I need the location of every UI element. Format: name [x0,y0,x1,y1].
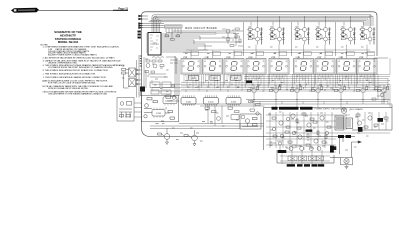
svg-text:V101: V101 [183,57,187,59]
IC IC203 [226,95,241,106]
svg-text:IC203: IC203 [231,101,237,103]
resistors R220-R226 and capacitors C211 C212 [205,101,260,121]
power transformer T1 assembly [117,98,134,122]
resistor R219 and capacitor C210 [165,95,179,101]
transistor Q205 [334,85,346,99]
transformers T901 T902 [335,116,353,130]
output transistors Q911-Q914 with emitter resistors [288,147,324,161]
svg-text:U201: U201 [152,44,158,46]
svg-text:Q901 X29A829: Q901 X29A829 [349,108,364,111]
transistor Q203 [290,85,302,99]
slide switches SW1 SW2 [122,68,142,88]
display tube V108 [337,59,357,92]
svg-text:4511: 4511 [213,78,217,80]
transistors Q206 Q207 with connectors [158,128,203,146]
connector plug P101 [165,25,183,35]
svg-text:MAIN CIRCUIT BOARD: MAIN CIRCUIT BOARD [185,27,217,30]
ground [345,165,349,169]
svg-text:MODEL SB-634: MODEL SB-634 [58,40,79,44]
svg-text:V103: V103 [226,57,230,59]
switch S901 components [372,58,388,100]
svg-text:V105: V105 [271,57,275,59]
wire junctions [186,76,375,92]
decoder ICs IC104 IC105 IC106 [188,76,241,81]
driver stage transistors Q113 Q114 [216,28,239,44]
anode resistor packs R101-R109 [185,52,375,56]
driver stage transistors Q101 Q102 [247,26,263,45]
terminal labels row [287,164,295,166]
time-set switch assembly S201 [142,95,179,122]
connector blocks CB1 CB2 [246,81,252,84]
display tube V106 [294,59,314,92]
driver stage transistors Q103 Q104 [269,26,285,45]
display tube V102 [203,59,223,92]
transistor Q915 [277,141,283,150]
transistor Q202 [269,85,281,99]
svg-text:FOR THE COLOR CODE OF EACH WIR: FOR THE COLOR CODE OF EACH WIRE SHOWN. [48,81,96,84]
svg-text:IC208: IC208 [167,101,172,103]
svg-text:V104: V104 [248,57,252,59]
display tube V109 [357,59,377,92]
wire runs from drivers to tube anodes [183,45,374,59]
connectors J101 J102 J103 [139,15,165,29]
wire grid (power supply) [266,112,390,164]
driver stage transistors Q107 Q108 [315,26,331,45]
transistors Q903-Q910 with resistors R901-R918 [270,113,388,147]
header rule line [37,9,128,11]
IC IC202 [203,95,218,106]
tube reference labels [183,57,363,59]
wire bus (top) [149,15,374,33]
svg-text:4511: 4511 [234,78,238,80]
wire pairs from tube cathodes to bus [202,74,358,88]
wire drops from transistor row [254,98,384,108]
terminal strip TS1 [138,31,141,39]
svg-text:V108: V108 [339,57,343,59]
wire runs from U201 with resistors R210 R211 R212 [163,31,243,52]
oscillator Y201 with resistors R213-R218 and transistors Q210 Q211 [144,56,179,96]
display tube V104 [246,59,266,92]
svg-text:POWER SUPPLY CIRCUIT BOARD: POWER SUPPLY CIRCUIT BOARD [315,107,348,110]
board name label bars [272,107,278,110]
transistor Q901 [341,108,347,114]
svg-text:∅ THIS SYMBOL INDICATES A CIR: ∅ THIS SYMBOL INDICATES A CIRCUIT BOARD … [43,69,109,72]
driver stage transistors Q109 Q110 [340,26,356,45]
svg-text:VOLTMETER FROM THE POINT INDIC: VOLTMETER FROM THE POINT INDICATED TO CH… [48,66,113,69]
svg-text:CIRCLES REFER TO THE WIRING HA: CIRCLES REFER TO THE WIRING HARNESS CONN… [48,92,108,95]
IC IC201 [181,95,196,106]
resistors R230 R231 R232 near connector [165,33,180,40]
driver stage transistors Q105 Q106 [294,26,310,45]
svg-text:WITH NO SIGNAL INPUT UNLESS NO: WITH NO SIGNAL INPUT UNLESS NOTED. [48,87,89,90]
label (heat sink) [278,150,287,153]
display tube V101 [181,59,201,92]
svg-text:IC202: IC202 [208,101,214,103]
speaker SP1 [341,158,353,165]
component value labels [145,47,389,150]
svg-text:Page 11: Page 11 [118,6,128,10]
diode blocks D901-D905 and labels [378,118,384,122]
heathkit logo [11,8,39,13]
wire drops from bus to driver stages [251,15,370,26]
wire section dividers [244,22,336,56]
svg-text:V109: V109 [359,57,363,59]
svg-text:V102: V102 [205,57,209,59]
connector arrow (output) [352,141,362,143]
svg-text:4511: 4511 [191,78,195,80]
power supply board outline [264,105,393,164]
display tube V105 [269,59,289,92]
svg-text:2. ALL RESISTOR VALUES ARE IN: 2. ALL RESISTOR VALUES ARE IN OHMS (K=1,… [43,57,116,60]
svg-text:V107: V107 [317,57,321,59]
terminal pins on board edge [140,56,142,95]
svg-text:IC201: IC201 [186,101,192,103]
wire runs from transformer to power supply [134,103,264,129]
outer frame [142,12,378,137]
driver stage Q902 assembly [240,114,261,129]
wire drops to transformer box [137,55,140,98]
svg-text:V106: V106 [296,57,300,59]
svg-text:◇ THIS SYMBOL INDICATES A PUS: ◇ THIS SYMBOL INDICATES A PUSH-ON CONNEC… [43,72,97,75]
clock chip U201 [146,33,163,56]
driver stage transistors Q111 Q112 [360,26,376,45]
svg-text:IC209: IC209 [156,113,161,115]
transistor Q206A [356,85,368,99]
svg-text:900-999 POWER SUPPLY CIRCUIT: 900-999 POWER SUPPLY CIRCUIT BOARD PARTS [48,54,97,57]
display tube V103 [224,59,244,92]
transistor Q207A [377,85,389,99]
transistor Q201 [247,85,259,99]
display tube V107 [315,59,335,92]
transistor Q204 [311,85,323,99]
